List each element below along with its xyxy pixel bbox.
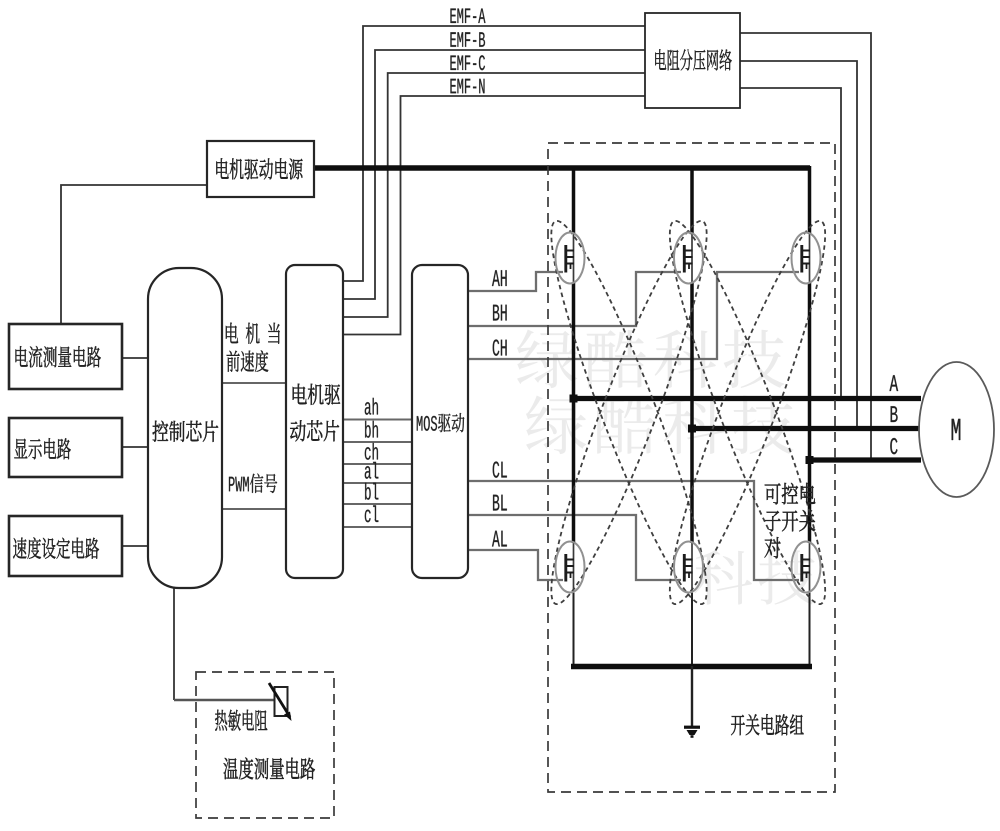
wire divider to phase A xyxy=(740,88,841,398)
wire bridge leg C drain-source xyxy=(809,233,811,284)
switch pair ellipse AH-BL xyxy=(530,211,727,613)
label phase B xyxy=(891,406,898,422)
switch circuit group box (dashed) xyxy=(548,143,835,792)
block motor drive chip xyxy=(286,265,343,578)
transistor Q3 (BH) xyxy=(674,233,703,284)
label motor current speed 2 xyxy=(227,350,269,371)
label resistor divider network xyxy=(655,49,732,70)
label AL xyxy=(492,531,507,547)
label EMF-A xyxy=(450,9,485,23)
block motor drive power xyxy=(207,141,314,197)
block MOS driver xyxy=(412,265,468,578)
wire bl xyxy=(343,503,414,505)
wire bridge leg B drain-source 2 xyxy=(691,542,693,594)
block resistor divider network xyxy=(645,13,740,108)
label controllable switch pair 2 xyxy=(765,510,815,532)
wire display to control chip xyxy=(122,446,148,448)
label control chip xyxy=(152,421,218,442)
label phase A xyxy=(890,375,899,391)
wire CH gate net xyxy=(468,272,799,359)
wire bridge leg C lower xyxy=(809,593,811,666)
block control chip xyxy=(148,268,222,588)
label thermistor xyxy=(215,710,267,731)
wire phase A xyxy=(574,396,922,401)
label controllable switch pair 1 xyxy=(765,483,816,505)
wire phase C xyxy=(810,457,922,462)
wire al xyxy=(343,482,414,484)
wire bridge leg B xyxy=(690,166,694,234)
wire bh xyxy=(343,441,414,443)
wire control chip to thermistor xyxy=(173,588,175,700)
wire power to current-measure xyxy=(61,185,207,324)
label motor current speed xyxy=(226,323,280,344)
label ch xyxy=(365,443,378,460)
block speed setting circuit xyxy=(9,516,122,576)
wire divider to phase B xyxy=(740,61,857,428)
wire bridge leg B lower xyxy=(691,593,693,666)
label controllable switch pair 3 xyxy=(765,537,781,558)
wire bottom bus xyxy=(571,664,812,670)
switch pair ellipse CH-BL2 xyxy=(649,211,846,613)
thermistor RT xyxy=(269,683,292,721)
wire bridge leg B mid xyxy=(690,283,694,543)
label EMF-B xyxy=(450,32,485,46)
wire bridge leg A drain-source 2 xyxy=(573,542,575,594)
wire bridge leg C xyxy=(808,166,812,234)
label motor drive chip line2 xyxy=(290,420,339,441)
wire ah xyxy=(343,419,414,421)
label CH xyxy=(493,339,507,355)
wire AH gate net xyxy=(468,272,563,291)
label PWM signal xyxy=(229,477,249,491)
wire bridge leg B drain-source xyxy=(691,233,693,284)
transistor Q2 (AL) xyxy=(556,542,585,593)
transistor Q6 (CL) xyxy=(792,542,821,593)
wire BH gate net xyxy=(468,272,681,326)
block current measurement circuit xyxy=(9,324,122,389)
wire thermistor lead xyxy=(174,699,275,702)
label speed setting circuit xyxy=(13,537,99,558)
label temperature measurement circuit xyxy=(224,758,315,780)
label M xyxy=(952,419,961,440)
wire bridge leg A mid xyxy=(572,283,576,543)
block display circuit xyxy=(9,418,122,477)
wire speed-set to control chip xyxy=(122,545,148,547)
wire bridge leg C mid xyxy=(808,283,812,543)
label bl xyxy=(365,483,378,500)
watermark xyxy=(517,329,816,604)
label CL xyxy=(493,461,507,477)
label switch circuit group xyxy=(731,714,804,735)
wire bridge leg A lower xyxy=(573,593,575,666)
wire EMF-B net xyxy=(343,50,645,299)
wire bridge leg C drain-source 2 xyxy=(809,542,811,594)
wire bridge leg A drain-source xyxy=(573,233,575,284)
ground xyxy=(684,666,700,737)
switch pair ellipse BH-AL xyxy=(530,211,727,613)
transistor Q4 (BL) xyxy=(674,542,703,593)
wire motor-speed signal xyxy=(222,382,287,384)
label BL xyxy=(493,495,507,511)
label al xyxy=(365,462,379,479)
wire cl xyxy=(343,526,414,528)
wire AL gate net xyxy=(468,550,563,580)
wire power bus xyxy=(313,165,810,171)
node phase C junction xyxy=(806,456,814,464)
label AH xyxy=(492,270,507,286)
label BH xyxy=(493,305,507,321)
switch pair ellipse BH-CL xyxy=(649,211,846,613)
wire BL gate net xyxy=(468,515,681,580)
label EMF-N xyxy=(450,79,484,93)
wire bridge leg A xyxy=(572,166,576,234)
label MOS driver xyxy=(417,416,437,431)
label phase C xyxy=(890,438,897,454)
motor M xyxy=(919,362,994,497)
wire EMF-C net xyxy=(343,73,645,317)
transistor Q1 (AH) xyxy=(556,233,585,284)
label display circuit xyxy=(14,438,70,459)
node phase B junction xyxy=(688,425,696,433)
wire CL gate net xyxy=(468,481,799,580)
node phase A junction xyxy=(570,395,578,403)
wire PWM signal xyxy=(222,508,287,510)
label motor drive chip line1 xyxy=(293,384,341,405)
wire phase B xyxy=(692,426,919,431)
label current measurement circuit xyxy=(15,346,100,367)
wire ch xyxy=(343,463,414,465)
label EMF-C xyxy=(450,55,485,70)
label bh xyxy=(365,421,378,438)
wire EMF-A net xyxy=(343,26,645,281)
label cl xyxy=(365,505,379,522)
wire divider to phase C xyxy=(740,33,871,460)
wire EMF-N net xyxy=(343,96,645,335)
label motor drive power xyxy=(216,158,302,179)
label ah xyxy=(365,398,378,415)
transistor Q5 (CH) xyxy=(792,233,821,284)
wire current-measure to control chip xyxy=(122,357,148,359)
temperature measurement box (dashed) xyxy=(196,672,334,818)
